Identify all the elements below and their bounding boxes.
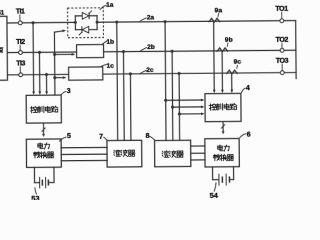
svg-text:5: 5 xyxy=(67,131,71,140)
svg-text:1c: 1c xyxy=(107,63,115,70)
svg-text:51: 51 xyxy=(0,11,5,17)
svg-text:TI3: TI3 xyxy=(16,60,25,67)
svg-text:6: 6 xyxy=(247,129,251,138)
svg-text:9c: 9c xyxy=(234,59,242,66)
svg-text:7: 7 xyxy=(99,132,103,141)
svg-text:TO2: TO2 xyxy=(275,35,288,44)
svg-text:1b: 1b xyxy=(106,39,114,46)
svg-text:2b: 2b xyxy=(147,44,155,51)
svg-text:2a: 2a xyxy=(147,14,155,21)
svg-text:9b: 9b xyxy=(225,37,233,44)
svg-text:TI1: TI1 xyxy=(16,9,25,16)
svg-text:2c: 2c xyxy=(146,67,154,74)
svg-text:TO3: TO3 xyxy=(276,56,289,65)
svg-text:TI2: TI2 xyxy=(16,39,25,46)
svg-text:1a: 1a xyxy=(106,2,114,9)
svg-text:53: 53 xyxy=(31,194,39,200)
svg-text:TO1: TO1 xyxy=(275,4,288,13)
svg-text:54: 54 xyxy=(210,191,219,200)
svg-text:3: 3 xyxy=(67,86,71,95)
svg-text:4: 4 xyxy=(246,83,250,92)
svg-text:8: 8 xyxy=(146,131,150,140)
